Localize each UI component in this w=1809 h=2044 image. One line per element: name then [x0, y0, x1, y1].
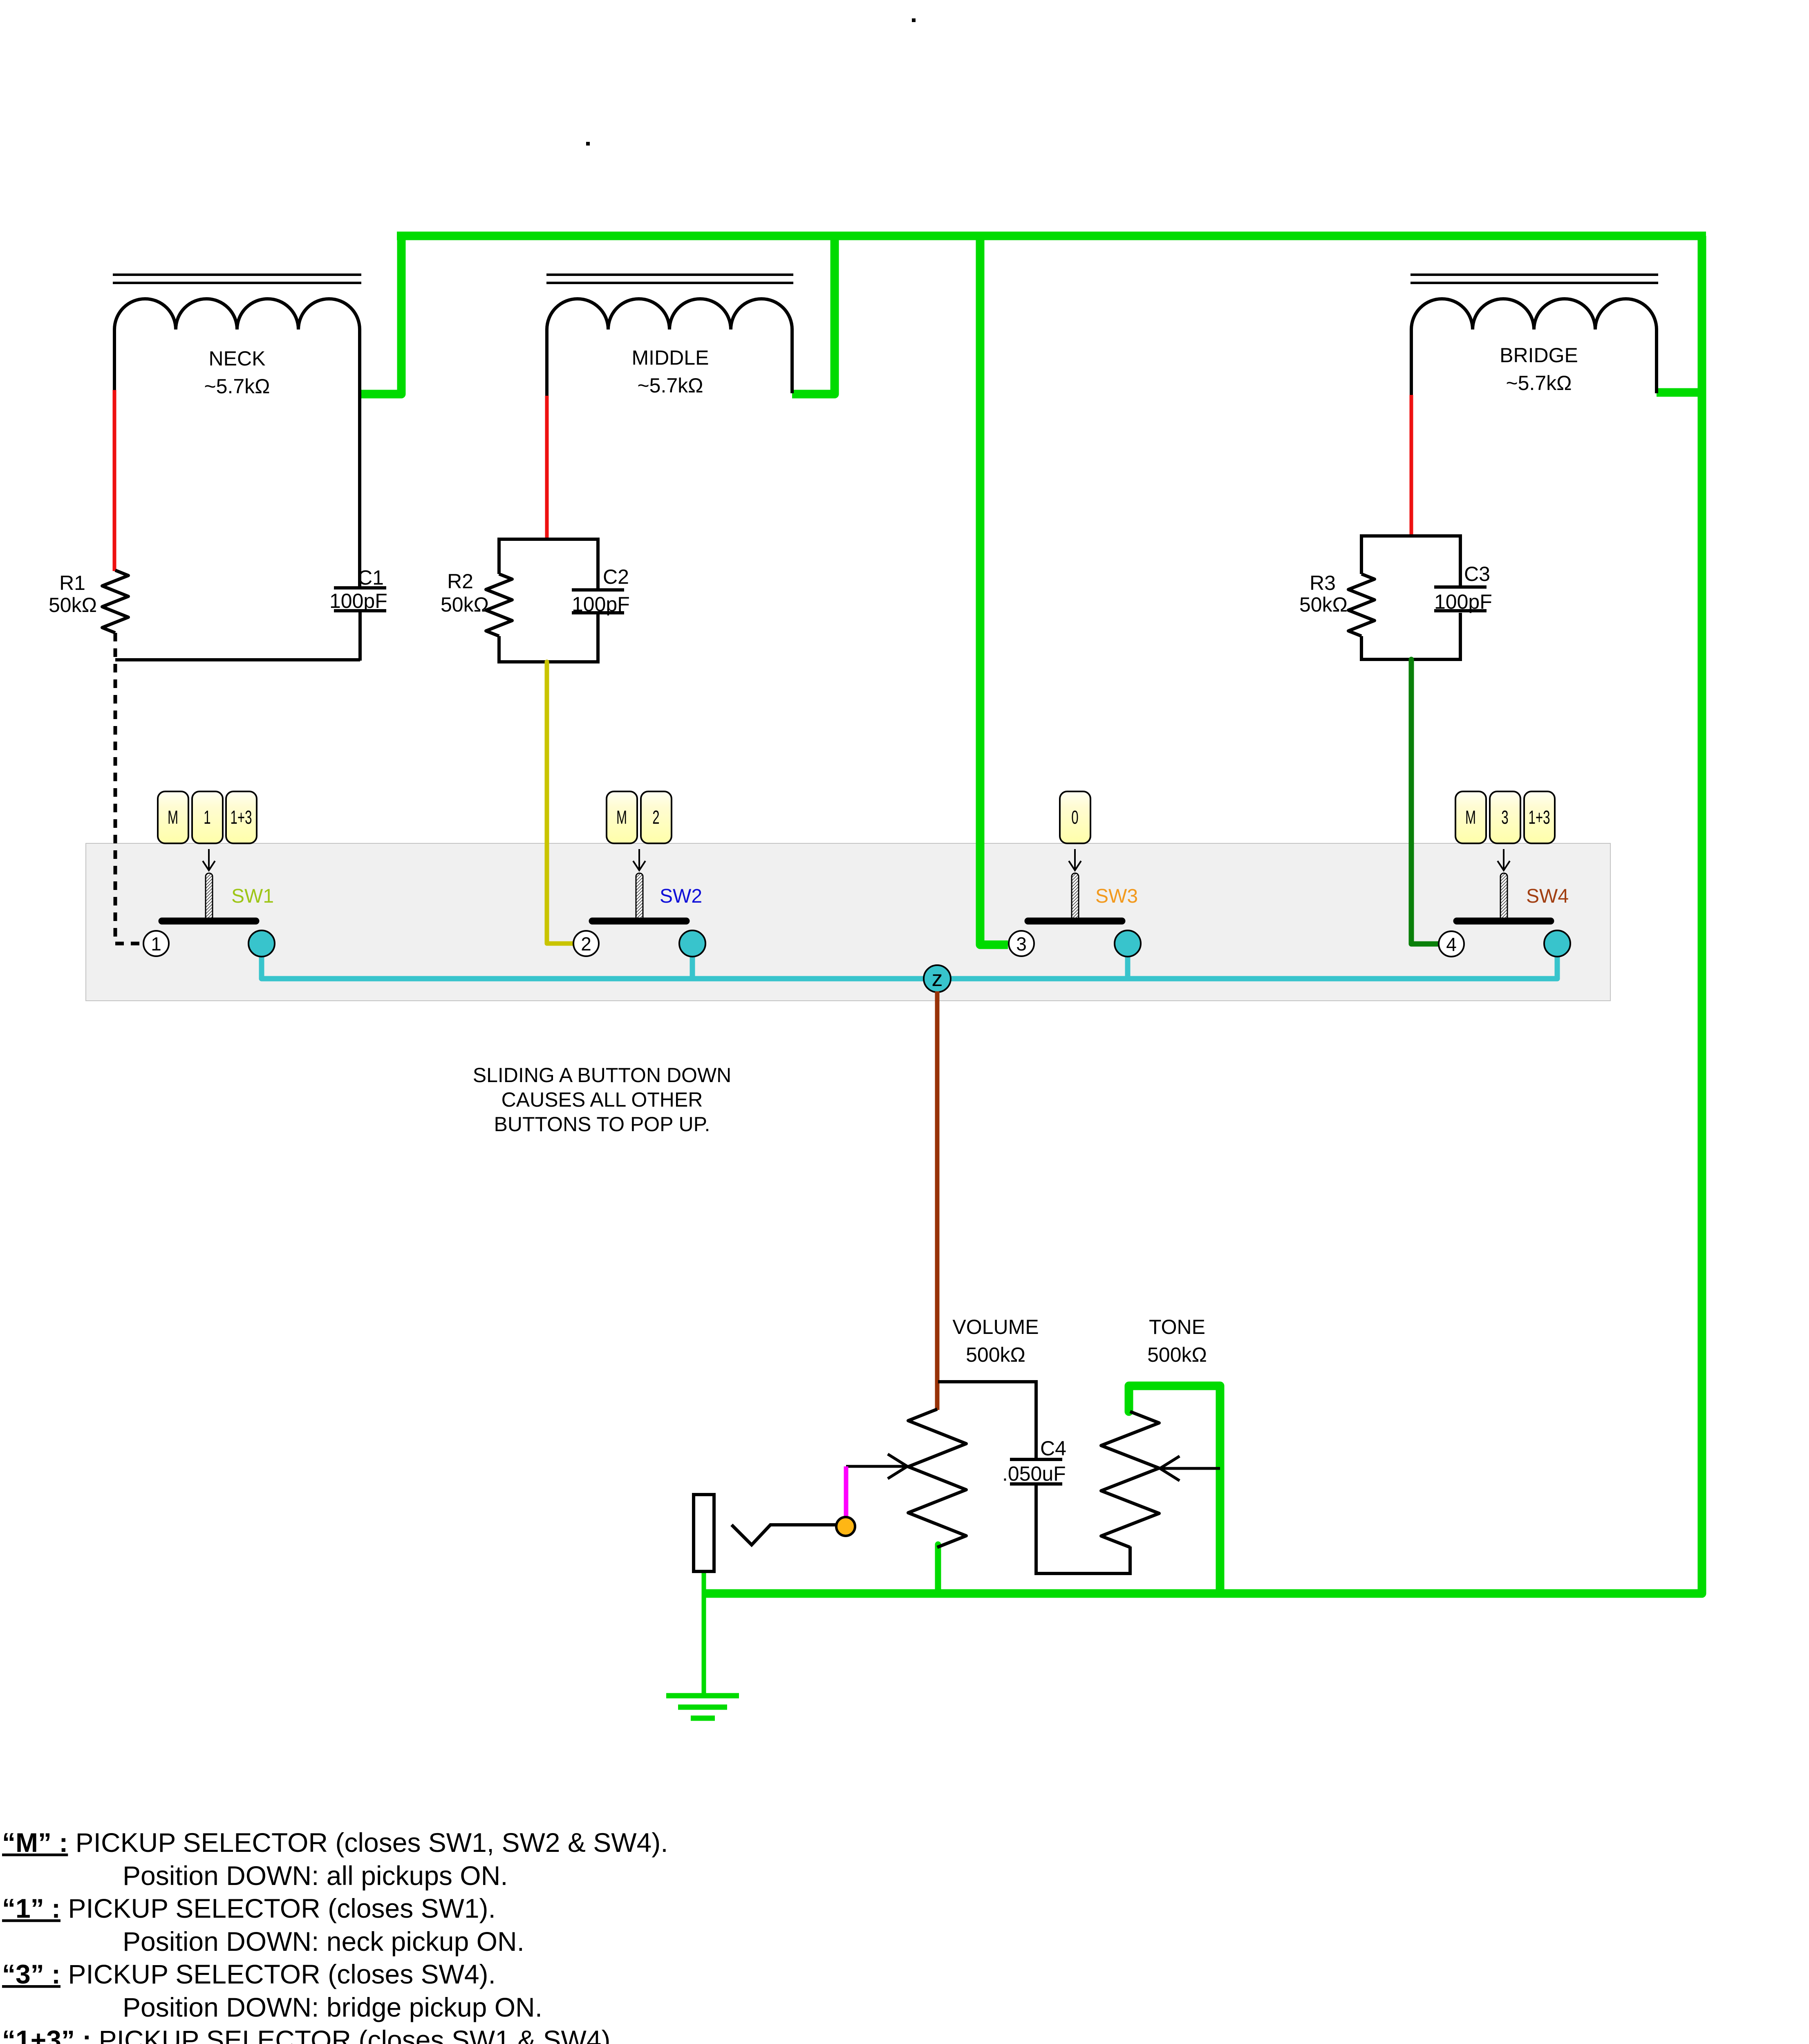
svg-text:“3” : PICKUP SELECTOR (closes: “3” : PICKUP SELECTOR (closes SW4).: [2, 1959, 496, 1989]
svg-text:“M” : PICKUP SELECTOR (closes: “M” : PICKUP SELECTOR (closes SW1, SW2 &…: [2, 1827, 668, 1858]
button 3 (SW4): [1490, 791, 1520, 843]
svg-text:500kΩ: 500kΩ: [966, 1343, 1025, 1366]
arrow push SW1: [203, 849, 215, 870]
stray dot top center: [912, 18, 916, 22]
svg-text:“1+3” : PICKUP SELECTOR (close: “1+3” : PICKUP SELECTOR (closes SW1 & SW…: [2, 2025, 618, 2044]
svg-text:~5.7kΩ: ~5.7kΩ: [637, 374, 703, 397]
svg-text:C3: C3: [1464, 563, 1490, 585]
wire: top green bus: [397, 232, 1706, 240]
svg-text:1: 1: [204, 807, 210, 828]
switch SW2 plunger: [636, 873, 643, 922]
svg-text:4: 4: [1446, 934, 1457, 955]
middle coil right lead: [790, 329, 794, 393]
svg-text:R3: R3: [1310, 572, 1336, 594]
inductor MIDDLE coil: [547, 299, 792, 329]
wire: middle pickup finish to top bus: [792, 236, 835, 394]
svg-text:BRIDGE: BRIDGE: [1500, 344, 1578, 367]
bridge start red wire: [1410, 395, 1413, 537]
svg-text:1+3: 1+3: [230, 807, 252, 828]
terminal 3: [1009, 931, 1034, 956]
wire: dashed neck hot to SW1 terminal 1: [115, 633, 144, 944]
wire: right green vertical: [1220, 236, 1702, 1594]
note text: [473, 1064, 732, 1136]
wire: SW3 cyan stub: [1125, 953, 1131, 979]
button 1+3 (SW1): [226, 791, 257, 843]
capacitor C1: [334, 586, 386, 589]
terminal 4: [1439, 931, 1464, 957]
svg-text:2: 2: [652, 807, 659, 828]
resistor R3: [1348, 574, 1375, 636]
output jack body: [694, 1495, 714, 1571]
svg-text:BUTTONS TO POP UP.: BUTTONS TO POP UP.: [494, 1113, 710, 1136]
svg-text:1: 1: [151, 933, 161, 955]
svg-text:SW2: SW2: [660, 885, 702, 907]
inductor BRIDGE coil: [1411, 299, 1657, 329]
svg-text:SW1: SW1: [231, 885, 274, 907]
wire: cyan output bus: [262, 953, 1557, 979]
bridge coil right lead: [1655, 329, 1658, 393]
capacitor C3: [1434, 585, 1487, 589]
potentiometer VOLUME: [908, 1409, 966, 1547]
switch SW4 plunger: [1500, 873, 1507, 922]
svg-text:50kΩ: 50kΩ: [441, 593, 489, 616]
button M (SW2): [607, 791, 637, 843]
bridge coil left lead: [1410, 329, 1413, 397]
SW4 output dot: [1544, 930, 1570, 957]
svg-text:~5.7kΩ: ~5.7kΩ: [1506, 372, 1572, 394]
arrow push SW2: [633, 849, 645, 870]
wire: volume top to C4: [938, 1382, 1036, 1459]
svg-text:NECK: NECK: [209, 347, 266, 370]
terminal 2: [573, 931, 599, 956]
svg-text:100pF: 100pF: [329, 589, 387, 612]
switch SW2 contact bar: [592, 918, 686, 925]
svg-text:100pF: 100pF: [1434, 590, 1492, 613]
svg-text:MIDDLE: MIDDLE: [632, 346, 709, 369]
button M (SW4): [1455, 791, 1486, 843]
SW3 output dot: [1115, 930, 1141, 957]
gray switch band: [86, 843, 1610, 1001]
middle start red wire: [545, 396, 549, 540]
ground symbol: [666, 1696, 739, 1718]
svg-text:.050uF: .050uF: [1002, 1462, 1066, 1485]
svg-text:TONE: TONE: [1149, 1316, 1205, 1338]
switch SW4 contact bar: [1457, 918, 1551, 925]
svg-text:CAUSES ALL OTHER: CAUSES ALL OTHER: [502, 1088, 703, 1111]
volume wiper arrow: [846, 1454, 907, 1479]
jack tip contact: [732, 1525, 836, 1545]
svg-text:50kΩ: 50kΩ: [1299, 593, 1348, 616]
node z: [924, 965, 951, 992]
wire: top bus down to SW3 terminal 3: [980, 236, 1008, 945]
wire: R1/C1 bottom join: [115, 658, 360, 661]
svg-text:Position DOWN: all pickups ON.: Position DOWN: all pickups ON.: [123, 1860, 508, 1891]
neck coil left lead: [113, 329, 116, 391]
capacitor C4: [1010, 1458, 1062, 1461]
arrow push SW4: [1498, 849, 1510, 870]
svg-text:SLIDING A BUTTON DOWN: SLIDING A BUTTON DOWN: [473, 1064, 732, 1087]
wire: neck pickup finish to top bus: [360, 236, 401, 394]
button 2 (SW2): [641, 791, 672, 843]
R2/C2 parallel box: [499, 539, 598, 662]
wire: volume bottom stub: [935, 1544, 941, 1594]
svg-text:0: 0: [1071, 807, 1078, 828]
wire: middle hot yellow to SW2 terminal 2: [547, 662, 574, 944]
svg-text:M: M: [168, 807, 178, 828]
stray dot mid left: [586, 142, 590, 146]
svg-text:“1” : PICKUP SELECTOR (closes: “1” : PICKUP SELECTOR (closes SW1).: [2, 1893, 496, 1923]
arrow push SW3: [1069, 849, 1081, 870]
wire: SW2 cyan stub: [690, 953, 695, 979]
svg-text:C2: C2: [603, 565, 629, 588]
R3/C3 parallel box: [1361, 536, 1460, 659]
SW1 output dot: [249, 930, 275, 957]
middle coil left lead: [545, 329, 549, 397]
jack tip hot dot: [836, 1517, 855, 1536]
wire: tone top terminal link: [1129, 1386, 1220, 1594]
neck coil right lead down to C1: [358, 329, 361, 586]
svg-text:C4: C4: [1040, 1437, 1066, 1460]
switch SW1 plunger: [206, 873, 213, 922]
switch SW1 contact bar: [162, 918, 256, 925]
wire: bridge hot dark green to SW4 terminal 4: [1411, 659, 1438, 944]
resistor R2: [486, 574, 512, 636]
svg-text:C1: C1: [358, 566, 384, 589]
button 1+3 (SW4): [1524, 791, 1555, 843]
svg-text:3: 3: [1016, 933, 1027, 955]
terminal 1: [143, 931, 169, 956]
SW2 output dot: [679, 930, 705, 957]
resistor R1: [102, 570, 128, 633]
svg-text:3: 3: [1501, 807, 1508, 828]
svg-text:Position DOWN: bridge pickup O: Position DOWN: bridge pickup ON.: [123, 1992, 542, 2022]
svg-text:~5.7kΩ: ~5.7kΩ: [204, 375, 270, 398]
inductor NECK coil: [114, 299, 360, 329]
button 1 (SW1): [192, 791, 223, 843]
switch SW3 plunger: [1072, 873, 1079, 922]
svg-text:z: z: [932, 966, 943, 991]
svg-text:50kΩ: 50kΩ: [49, 594, 97, 616]
svg-text:SW3: SW3: [1095, 885, 1138, 907]
wire: magenta wiper to jack tip: [844, 1466, 849, 1518]
svg-text:2: 2: [581, 933, 591, 955]
wire: z to volume (brown): [935, 991, 940, 1410]
tone wiper arrow: [1160, 1456, 1220, 1481]
svg-text:R2: R2: [447, 570, 473, 593]
bridge core lines: [1410, 273, 1658, 276]
middle core lines: [546, 273, 793, 276]
neck core lines: [113, 273, 361, 276]
svg-text:100pF: 100pF: [572, 593, 630, 616]
wire: jack sleeve to ground: [702, 1571, 706, 1694]
svg-text:SW4: SW4: [1526, 885, 1569, 907]
svg-text:Position DOWN: neck pickup ON.: Position DOWN: neck pickup ON.: [123, 1926, 524, 1957]
svg-text:VOLUME: VOLUME: [952, 1316, 1039, 1338]
neck start red wire: [113, 390, 116, 571]
svg-text:1+3: 1+3: [1528, 807, 1550, 828]
switch SW3 contact bar: [1028, 918, 1122, 925]
svg-text:M: M: [616, 807, 627, 828]
svg-text:500kΩ: 500kΩ: [1147, 1343, 1207, 1366]
wire: bottom ground bus: [704, 1589, 1220, 1598]
button 0 (SW3): [1060, 791, 1090, 843]
button M (SW1): [158, 791, 188, 843]
svg-text:R1: R1: [59, 572, 85, 594]
wire: bridge pickup finish to right green vertical: [1657, 388, 1702, 397]
svg-text:M: M: [1465, 807, 1476, 828]
capacitor C2: [572, 588, 624, 592]
wire: C4 bottom to tone bottom: [1036, 1484, 1130, 1573]
potentiometer TONE: [1101, 1412, 1159, 1547]
